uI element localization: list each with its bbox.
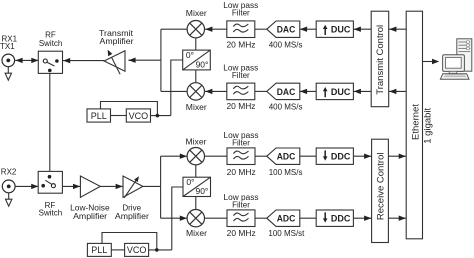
lowpass filter F4 (RX lower) bbox=[227, 210, 255, 227]
wire ADC2 to DDC2 bbox=[299, 217, 316, 219]
wire 0/90 to mixer M2 bbox=[195, 70, 197, 83]
svg-text:90°: 90° bbox=[195, 186, 208, 196]
svg-text:Ethernet: Ethernet bbox=[411, 104, 422, 140]
svg-text:ADC: ADC bbox=[277, 214, 296, 225]
wire F3 to ADC1 bbox=[255, 155, 268, 157]
mixer M4 (RX lower) bbox=[187, 210, 204, 227]
low-noise amplifier bbox=[80, 176, 100, 197]
svg-text:DDC: DDC bbox=[331, 214, 351, 225]
svg-text:RX2: RX2 bbox=[1, 167, 17, 176]
RF switch S2 bbox=[38, 171, 62, 193]
PLL box (TX) bbox=[87, 109, 111, 122]
svg-text:Filter: Filter bbox=[232, 71, 250, 80]
antenna port RX1/TX1 bbox=[2, 54, 15, 80]
svg-text:Mixer: Mixer bbox=[186, 229, 207, 238]
DAC1 bbox=[267, 21, 300, 37]
svg-text:VCO: VCO bbox=[129, 111, 149, 121]
wire PLL feedback loop (TX) bbox=[101, 102, 158, 116]
svg-text:DDC: DDC bbox=[331, 152, 351, 163]
svg-text:DAC: DAC bbox=[277, 87, 296, 98]
transmit amplifier bbox=[104, 50, 125, 75]
svg-text:VCO: VCO bbox=[127, 245, 147, 255]
wire LO riser to 0/90 (RX) bbox=[172, 187, 183, 250]
wire antenna1 to switch (bidirectional) bbox=[15, 59, 38, 61]
wire DAC2 to F2 bbox=[255, 90, 268, 92]
wire LO riser to 0/90 (TX) bbox=[171, 60, 183, 116]
svg-text:Amplifier: Amplifier bbox=[115, 212, 149, 221]
wire DUC1 to DAC1 bbox=[299, 28, 316, 30]
quadrature phase splitter 0/90 (RX) bbox=[183, 177, 211, 196]
lowpass filter F3 (RX upper) bbox=[227, 148, 255, 165]
svg-text:PLL: PLL bbox=[91, 245, 107, 255]
drive amplifier bbox=[123, 176, 143, 198]
junction VCO/PLL (TX) bbox=[156, 114, 160, 118]
DDC1 box bbox=[316, 148, 353, 164]
wire Ethernet to TC (upper) bbox=[389, 28, 407, 30]
svg-text:100 MS/s: 100 MS/s bbox=[269, 168, 303, 177]
mixer M3 (RX upper) bbox=[187, 148, 204, 165]
wire drive amplifier to splitter bbox=[143, 185, 161, 187]
svg-text:DAC: DAC bbox=[277, 25, 296, 36]
quadrature phase splitter 0/90 (TX) bbox=[183, 50, 211, 70]
svg-text:TX1: TX1 bbox=[0, 42, 15, 51]
svg-text:400 MS/s: 400 MS/s bbox=[269, 41, 303, 50]
svg-text:Amplifier: Amplifier bbox=[73, 212, 107, 221]
RF switch S1 bbox=[38, 51, 62, 73]
svg-text:0°: 0° bbox=[186, 177, 194, 187]
svg-text:Amplifier: Amplifier bbox=[100, 37, 134, 46]
wire 0/90 to mixer M1 bbox=[195, 38, 197, 50]
wire DUC2 to DAC2 bbox=[299, 90, 316, 92]
svg-text:Mixer: Mixer bbox=[186, 9, 207, 18]
wire 0/90 to mixer M4 bbox=[195, 197, 197, 210]
wire VCO output to LO riser (RX) bbox=[149, 249, 172, 251]
svg-text:Switch: Switch bbox=[39, 39, 63, 48]
wire DDC2 to RC bbox=[353, 217, 371, 219]
mixer M2 (TX lower) bbox=[187, 83, 204, 100]
wire S1 to transmit amplifier bbox=[63, 60, 105, 62]
svg-text:DUC: DUC bbox=[331, 25, 351, 36]
wire RC to Ethernet (lower) bbox=[388, 217, 406, 219]
VCO box (RX) bbox=[125, 243, 149, 256]
svg-text:1 gigabit: 1 gigabit bbox=[422, 107, 433, 143]
wire F1 to mixer M1 bbox=[205, 28, 227, 30]
DUC1 box bbox=[316, 21, 353, 37]
svg-text:PLL: PLL bbox=[91, 111, 107, 121]
wire S2 to LNA bbox=[62, 185, 80, 187]
wire RC to Ethernet (upper) bbox=[388, 155, 406, 157]
svg-text:0°: 0° bbox=[186, 50, 194, 60]
wire combiner to transmit amplifier bbox=[128, 59, 161, 61]
wire F4 to ADC2 bbox=[255, 217, 268, 219]
wire Ethernet to computer bbox=[423, 61, 433, 63]
svg-text:100 MS/st: 100 MS/st bbox=[268, 229, 305, 238]
svg-text:Filter: Filter bbox=[232, 9, 250, 18]
wire splitter vertical bbox=[160, 156, 162, 218]
svg-text:Filter: Filter bbox=[232, 139, 250, 148]
lowpass filter F2 (TX lower) bbox=[227, 83, 255, 100]
svg-text:Switch: Switch bbox=[39, 209, 63, 218]
wire F2 to mixer M2 bbox=[205, 90, 227, 92]
PLL box (RX) bbox=[87, 243, 111, 256]
wire PLL feedback loop (RX) bbox=[102, 233, 157, 250]
Transmit Control box bbox=[371, 11, 389, 107]
wire LNA to drive amplifier bbox=[100, 185, 123, 187]
svg-text:20 MHz: 20 MHz bbox=[227, 41, 256, 50]
svg-text:Transmit Control: Transmit Control bbox=[375, 25, 386, 95]
antenna port RX2 bbox=[2, 180, 15, 206]
DDC2 box bbox=[316, 210, 353, 226]
lowpass filter F1 (TX upper) bbox=[227, 21, 255, 38]
wire mixer M3 to F3 bbox=[205, 155, 227, 157]
DAC2 bbox=[267, 83, 300, 99]
svg-text:20 MHz: 20 MHz bbox=[227, 168, 256, 177]
svg-text:20 MHz: 20 MHz bbox=[227, 102, 256, 111]
wire ADC1 to DDC1 bbox=[299, 155, 316, 157]
svg-text:ADC: ADC bbox=[277, 152, 296, 163]
Ethernet box bbox=[406, 11, 422, 239]
wire TC to DUC2 bbox=[353, 90, 371, 92]
svg-text:90°: 90° bbox=[196, 60, 209, 70]
wire VCO output to LO riser (TX) bbox=[151, 115, 171, 117]
wire RX2 to S2 bbox=[16, 185, 39, 187]
wire 0/90 to mixer M3 bbox=[195, 165, 197, 177]
mixer M1 (TX upper) bbox=[187, 21, 204, 38]
svg-text:Receive Control: Receive Control bbox=[376, 153, 387, 221]
VCO box (TX) bbox=[126, 109, 150, 122]
wire splitter to mixer M4 bbox=[161, 217, 188, 219]
wire mixer M4 to F4 bbox=[205, 217, 227, 219]
wire TC to DUC1 bbox=[353, 28, 371, 30]
svg-text:Mixer: Mixer bbox=[186, 138, 207, 147]
wire combiner vertical bbox=[160, 29, 162, 91]
ADC1 bbox=[267, 148, 300, 164]
svg-text:Filter: Filter bbox=[232, 201, 250, 210]
wire PLL to VCO (RX) bbox=[111, 249, 124, 251]
wire S1 down to S2 bbox=[49, 73, 51, 175]
wire splitter to mixer M3 bbox=[161, 155, 188, 157]
svg-text:DUC: DUC bbox=[331, 87, 351, 98]
wire mixer B to combiner bbox=[161, 90, 187, 92]
Receive Control box bbox=[372, 139, 389, 242]
svg-text:Mixer: Mixer bbox=[186, 103, 207, 112]
wire Ethernet to TC (lower) bbox=[389, 90, 407, 92]
ADC2 bbox=[267, 210, 300, 226]
svg-text:20 MHz: 20 MHz bbox=[227, 229, 256, 238]
computer host PC bbox=[440, 39, 471, 79]
wire DAC1 to F1 bbox=[255, 28, 268, 30]
wire PLL to VCO (TX) bbox=[111, 115, 127, 117]
junction VCO/PLL (RX) bbox=[155, 248, 159, 252]
svg-text:400 MS/s: 400 MS/s bbox=[269, 103, 303, 112]
wire DDC1 to RC bbox=[353, 155, 371, 157]
wire mixer A to combiner bbox=[161, 28, 187, 30]
DUC2 box bbox=[316, 83, 353, 99]
